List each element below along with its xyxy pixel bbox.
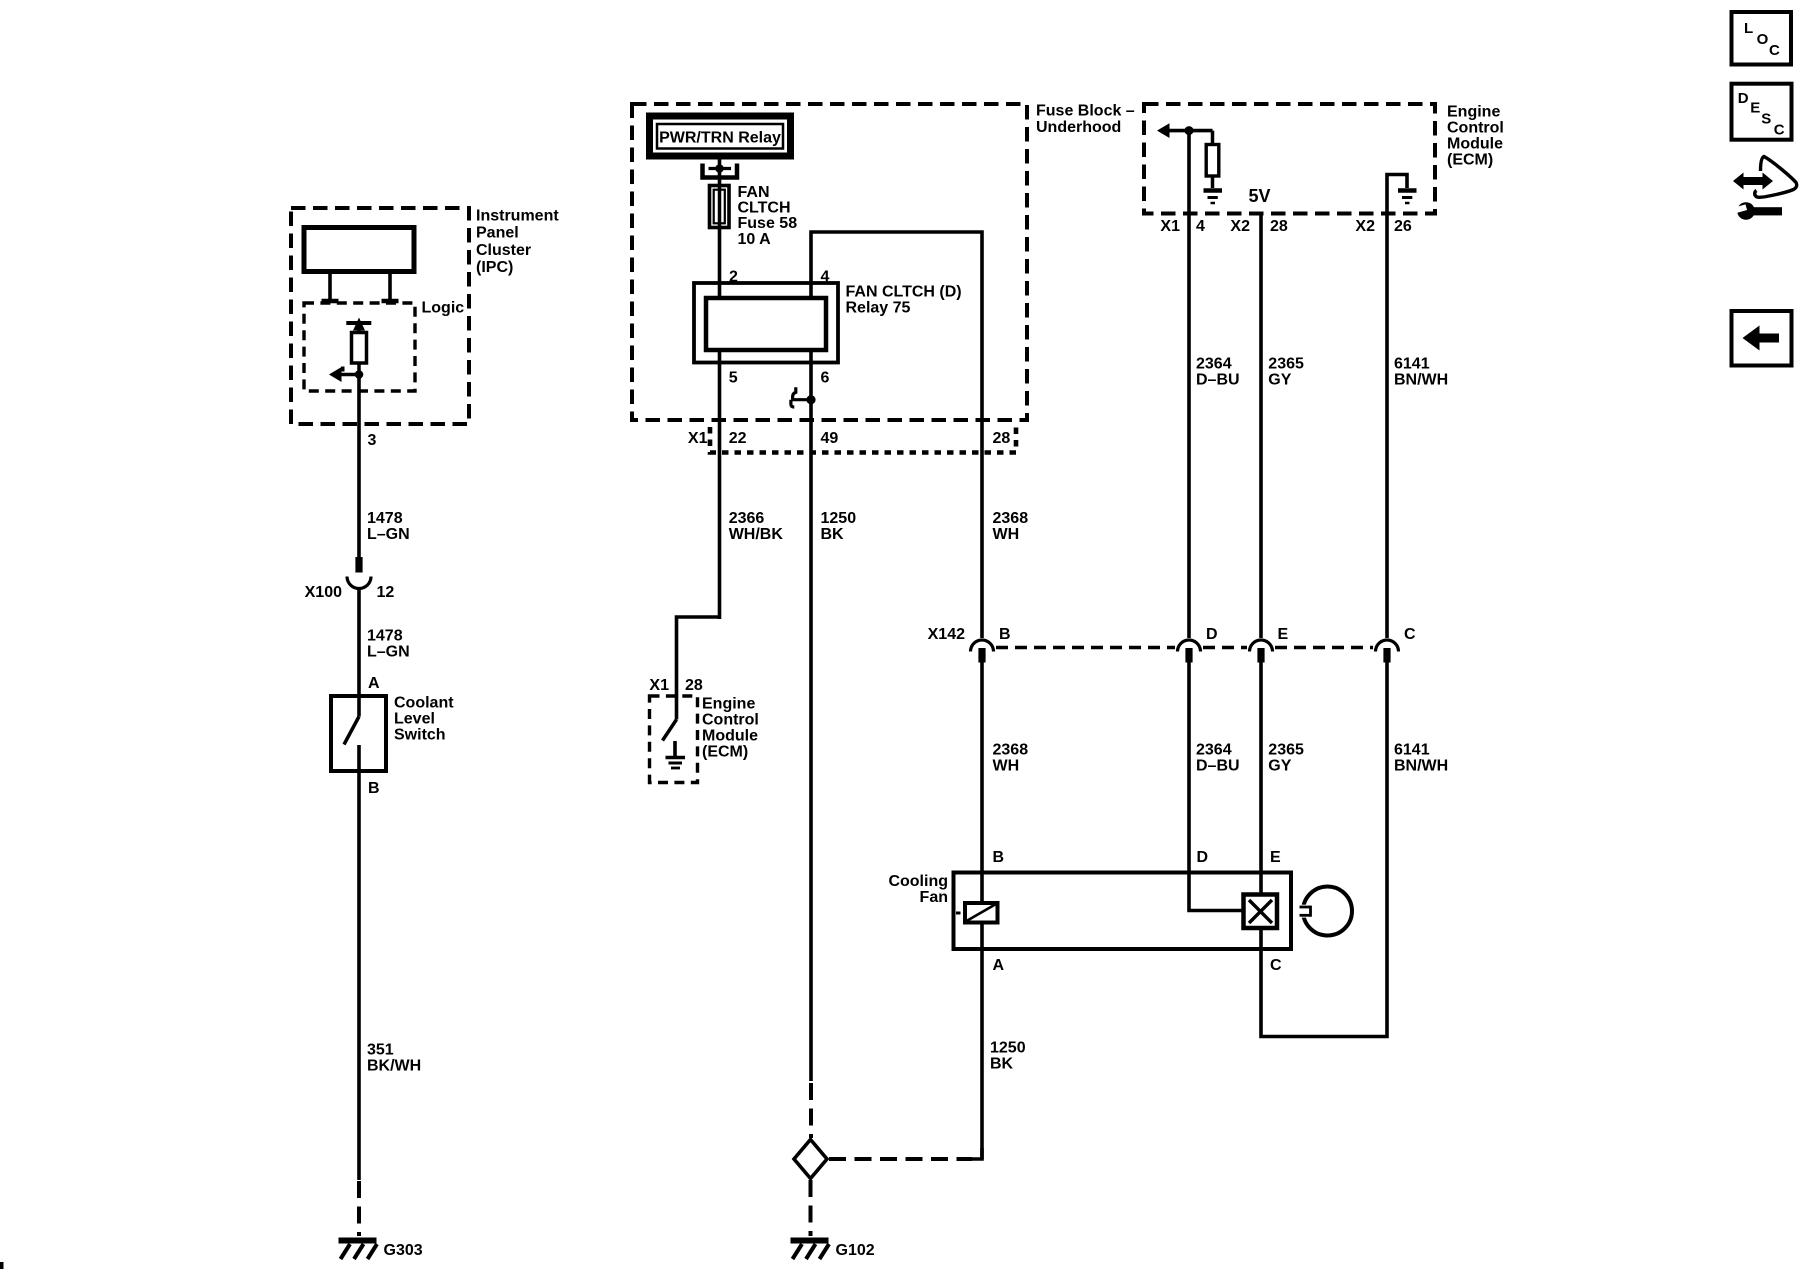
svg-text:D–BU: D–BU — [1196, 372, 1240, 389]
svg-text:12: 12 — [377, 584, 395, 601]
svg-text:10 A: 10 A — [738, 231, 772, 248]
svg-text:2364: 2364 — [1196, 742, 1232, 759]
wire fan A down — [980, 949, 984, 1159]
svg-text:6141: 6141 — [1394, 356, 1430, 373]
svg-text:Instrument: Instrument — [476, 208, 559, 225]
svg-text:6: 6 — [821, 370, 830, 387]
fuse block underhood dashed box — [632, 104, 1027, 420]
IPC internal module block — [304, 228, 414, 272]
ground G303 — [339, 1241, 378, 1260]
svg-text:X100: X100 — [305, 584, 342, 601]
svg-text:E: E — [1270, 849, 1281, 866]
svg-text:WH: WH — [993, 526, 1020, 543]
svg-text:2368: 2368 — [993, 742, 1029, 759]
fan clutch coil element — [956, 903, 998, 923]
svg-text:A: A — [368, 675, 380, 692]
svg-text:Level: Level — [394, 711, 435, 728]
svg-text:BN/WH: BN/WH — [1394, 372, 1448, 389]
svg-text:D: D — [1738, 90, 1749, 107]
svg-text:1250: 1250 — [821, 510, 857, 527]
svg-text:B: B — [993, 849, 1005, 866]
svg-text:B: B — [368, 780, 380, 797]
hidden wire to G303 (dashed) — [357, 1181, 361, 1236]
svg-text:BN/WH: BN/WH — [1394, 758, 1448, 775]
switch contact wire in — [357, 696, 361, 717]
svg-text:A: A — [993, 957, 1005, 974]
svg-text:CLTCH: CLTCH — [738, 200, 791, 217]
ECM ground box (dashed) — [650, 696, 698, 783]
svg-text:49: 49 — [821, 430, 839, 447]
wire 2365 GY down — [1259, 213, 1263, 638]
svg-text:E: E — [1278, 626, 1289, 643]
svg-text:L: L — [1744, 20, 1753, 37]
junction dot X1-4 — [1185, 126, 1194, 135]
svg-text:26: 26 — [1394, 218, 1412, 235]
svg-text:D: D — [1197, 849, 1209, 866]
svg-text:BK/WH: BK/WH — [367, 1058, 421, 1075]
switch blade — [344, 717, 359, 745]
svg-text:C: C — [1774, 121, 1785, 138]
svg-text:Module: Module — [702, 728, 758, 745]
wire 2365 GY to fan E / C loop — [1261, 660, 1387, 1037]
svg-text:B: B — [999, 626, 1011, 643]
wire fuse to relay pin 2 — [718, 227, 722, 298]
svg-text:(ECM): (ECM) — [1447, 152, 1493, 169]
IPC block leg left — [322, 271, 339, 301]
connector X142-E — [1250, 640, 1273, 663]
svg-text:2364: 2364 — [1196, 356, 1232, 373]
svg-text:L–GN: L–GN — [367, 644, 410, 661]
wire 2366 jog to ECM — [677, 617, 720, 698]
connector X100 pin 12 — [347, 557, 371, 589]
svg-text:Control: Control — [702, 712, 759, 729]
svg-text:C: C — [1769, 42, 1780, 59]
X142 harness dashed links — [996, 646, 1373, 650]
corner elbow at fan A wire — [970, 1148, 982, 1159]
back arrow icon box — [1732, 311, 1792, 366]
connector X142-C — [1376, 640, 1399, 663]
wire 2364 D-BU down — [1187, 131, 1191, 638]
cooling fan box — [954, 873, 1292, 950]
svg-text:E: E — [1750, 100, 1760, 117]
wire 2368 WH to fan B — [980, 660, 984, 949]
IPC block leg right — [382, 271, 399, 301]
svg-text:2366: 2366 — [729, 510, 765, 527]
svg-text:Underhood: Underhood — [1036, 119, 1121, 136]
connector X1 dotted bracket — [710, 427, 1016, 453]
svg-text:WH: WH — [993, 758, 1020, 775]
svg-text:Module: Module — [1447, 136, 1503, 153]
wire into ECM — [675, 698, 679, 720]
ECM switch blade — [663, 720, 677, 741]
wire D to solenoid — [1189, 873, 1244, 911]
svg-text:X1: X1 — [649, 677, 669, 694]
svg-text:X2: X2 — [1355, 218, 1375, 235]
logic driver: up arrowhead — [353, 318, 365, 331]
svg-text:5V: 5V — [1248, 186, 1270, 206]
svg-text:WH/BK: WH/BK — [729, 526, 784, 543]
svg-text:Fan: Fan — [920, 889, 948, 906]
svg-text:C: C — [1270, 957, 1282, 974]
svg-text:Fuse 58: Fuse 58 — [738, 215, 798, 232]
coolant level switch box — [331, 696, 386, 771]
wire 2364 D-BU to fan D — [1187, 660, 1191, 873]
svg-text:BK: BK — [990, 1056, 1014, 1073]
svg-text:Cooling: Cooling — [888, 873, 948, 890]
svg-text:3: 3 — [368, 432, 377, 449]
svg-text:28: 28 — [685, 677, 703, 694]
svg-text:FAN: FAN — [738, 184, 770, 201]
svg-text:28: 28 — [1270, 218, 1288, 235]
svg-text:C: C — [1404, 626, 1416, 643]
svg-text:Cluster: Cluster — [476, 242, 531, 259]
ECM internal ground left — [1204, 191, 1223, 204]
wire from PWR/TRN relay — [718, 156, 722, 186]
svg-text:(ECM): (ECM) — [702, 744, 748, 761]
svg-text:GY: GY — [1268, 758, 1291, 775]
svg-text:Switch: Switch — [394, 727, 446, 744]
svg-text:X142: X142 — [928, 626, 965, 643]
svg-text:351: 351 — [367, 1042, 394, 1059]
svg-text:D–BU: D–BU — [1196, 758, 1240, 775]
svg-text:(IPC): (IPC) — [476, 259, 513, 276]
fuse clip terminal — [703, 164, 738, 178]
arrows-wrench icon — [1733, 157, 1797, 220]
svg-text:22: 22 — [729, 430, 747, 447]
wire IPC pin 3 down — [357, 375, 361, 558]
svg-text:Relay 75: Relay 75 — [846, 300, 911, 317]
svg-text:5: 5 — [729, 370, 738, 387]
LOC icon box — [1732, 12, 1792, 65]
wire 351 BK/WH down — [357, 771, 361, 1180]
wire relay pin 4 up and over to X1 28 and down to X142 B — [811, 232, 982, 638]
svg-text:2365: 2365 — [1268, 742, 1304, 759]
Logic dashed box — [304, 303, 415, 391]
svg-text:Panel: Panel — [476, 225, 519, 242]
svg-text:G102: G102 — [836, 1242, 875, 1259]
fuse FAN CLTCH Fuse 58 10A — [710, 186, 730, 228]
svg-text:1478: 1478 — [367, 510, 403, 527]
wire relay pin 5 down — [718, 350, 722, 619]
relay FAN CLTCH (D) Relay 75 — [694, 283, 838, 363]
svg-text:Engine: Engine — [1447, 104, 1500, 121]
Instrument Panel Cluster (IPC) dashed box — [291, 208, 469, 424]
ECM dashed box — [1144, 104, 1435, 214]
svg-text:BK: BK — [821, 526, 845, 543]
junction dot in logic box — [355, 370, 364, 379]
svg-text:2365: 2365 — [1268, 356, 1304, 373]
svg-text:Engine: Engine — [702, 696, 755, 713]
svg-text:X1: X1 — [688, 430, 708, 447]
svg-text:Logic: Logic — [422, 300, 465, 317]
svg-text:L–GN: L–GN — [367, 526, 410, 543]
resistor in logic box — [352, 329, 367, 375]
wire 6141 BN/WH down — [1385, 213, 1389, 638]
splice diamond — [794, 1140, 827, 1179]
svg-text:28: 28 — [993, 430, 1011, 447]
wire relay pin 6 down — [809, 350, 813, 1081]
hidden wire splice to fan A wire (dashed) — [829, 1157, 972, 1161]
PWR/TRN Relay feed box — [650, 116, 791, 156]
fan motor — [1297, 887, 1352, 936]
svg-text:X1: X1 — [1160, 218, 1180, 235]
svg-text:O: O — [1757, 31, 1769, 48]
logic driver: top bar — [346, 321, 371, 325]
svg-text:GY: GY — [1268, 372, 1291, 389]
ground G102 — [791, 1241, 830, 1260]
hidden wire 1250 to splice (dashed) — [809, 1083, 813, 1138]
svg-text:Coolant: Coolant — [394, 695, 454, 712]
DESC icon box — [1732, 84, 1792, 140]
svg-text:FAN CLTCH (D): FAN CLTCH (D) — [846, 284, 962, 301]
svg-text:G303: G303 — [384, 1242, 423, 1259]
solenoid X-box — [1244, 895, 1278, 929]
ECM internal ground — [666, 741, 686, 768]
wire X100 to switch — [357, 589, 361, 697]
svg-text:S: S — [1761, 111, 1771, 128]
ECM internal ground right with wire — [1387, 175, 1417, 214]
svg-text:D: D — [1206, 626, 1218, 643]
svg-text:6141: 6141 — [1394, 742, 1430, 759]
svg-text:1478: 1478 — [367, 628, 403, 645]
svg-text:Control: Control — [1447, 120, 1504, 137]
svg-text:1250: 1250 — [990, 1040, 1026, 1057]
hidden wire splice to G102 (dashed) — [809, 1180, 813, 1236]
relay contact symbol — [791, 387, 816, 407]
svg-text:4: 4 — [1196, 218, 1205, 235]
svg-text:PWR/TRN Relay: PWR/TRN Relay — [659, 129, 781, 146]
svg-text:Fuse Block –: Fuse Block – — [1036, 103, 1135, 120]
pull-up resistor — [1206, 131, 1219, 188]
svg-text:X2: X2 — [1230, 218, 1250, 235]
svg-text:2368: 2368 — [993, 510, 1029, 527]
ECM output arrow — [1157, 123, 1213, 138]
logic output left arrow — [329, 367, 359, 383]
page corner mark — [0, 1262, 4, 1269]
connector X142-B — [971, 640, 994, 663]
switch contact wire out — [357, 745, 361, 771]
connector X142-D — [1178, 640, 1201, 663]
